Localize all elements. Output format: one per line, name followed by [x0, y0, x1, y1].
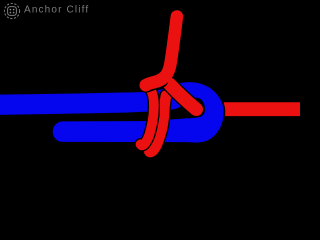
blue rope bight (filled, with outline)	[0, 81, 225, 143]
red wrap right band	[149, 96, 166, 153]
red working end: left band + hook	[141, 85, 154, 145]
watermark icon (button-like circle)	[4, 3, 19, 18]
red diagonal tuck	[170, 85, 196, 110]
arch underside shadow seam	[146, 80, 161, 85]
red standing part from top + arch	[146, 17, 177, 86]
red working end: left band + hook (outline)	[141, 85, 154, 145]
red rope standing part (horizontal, from right edge)	[213, 102, 304, 116]
red wrap right band (outline)	[149, 96, 166, 153]
red diagonal tuck (outline)	[170, 85, 196, 110]
svg-text:Anchor Cliff: Anchor Cliff	[24, 4, 89, 15]
